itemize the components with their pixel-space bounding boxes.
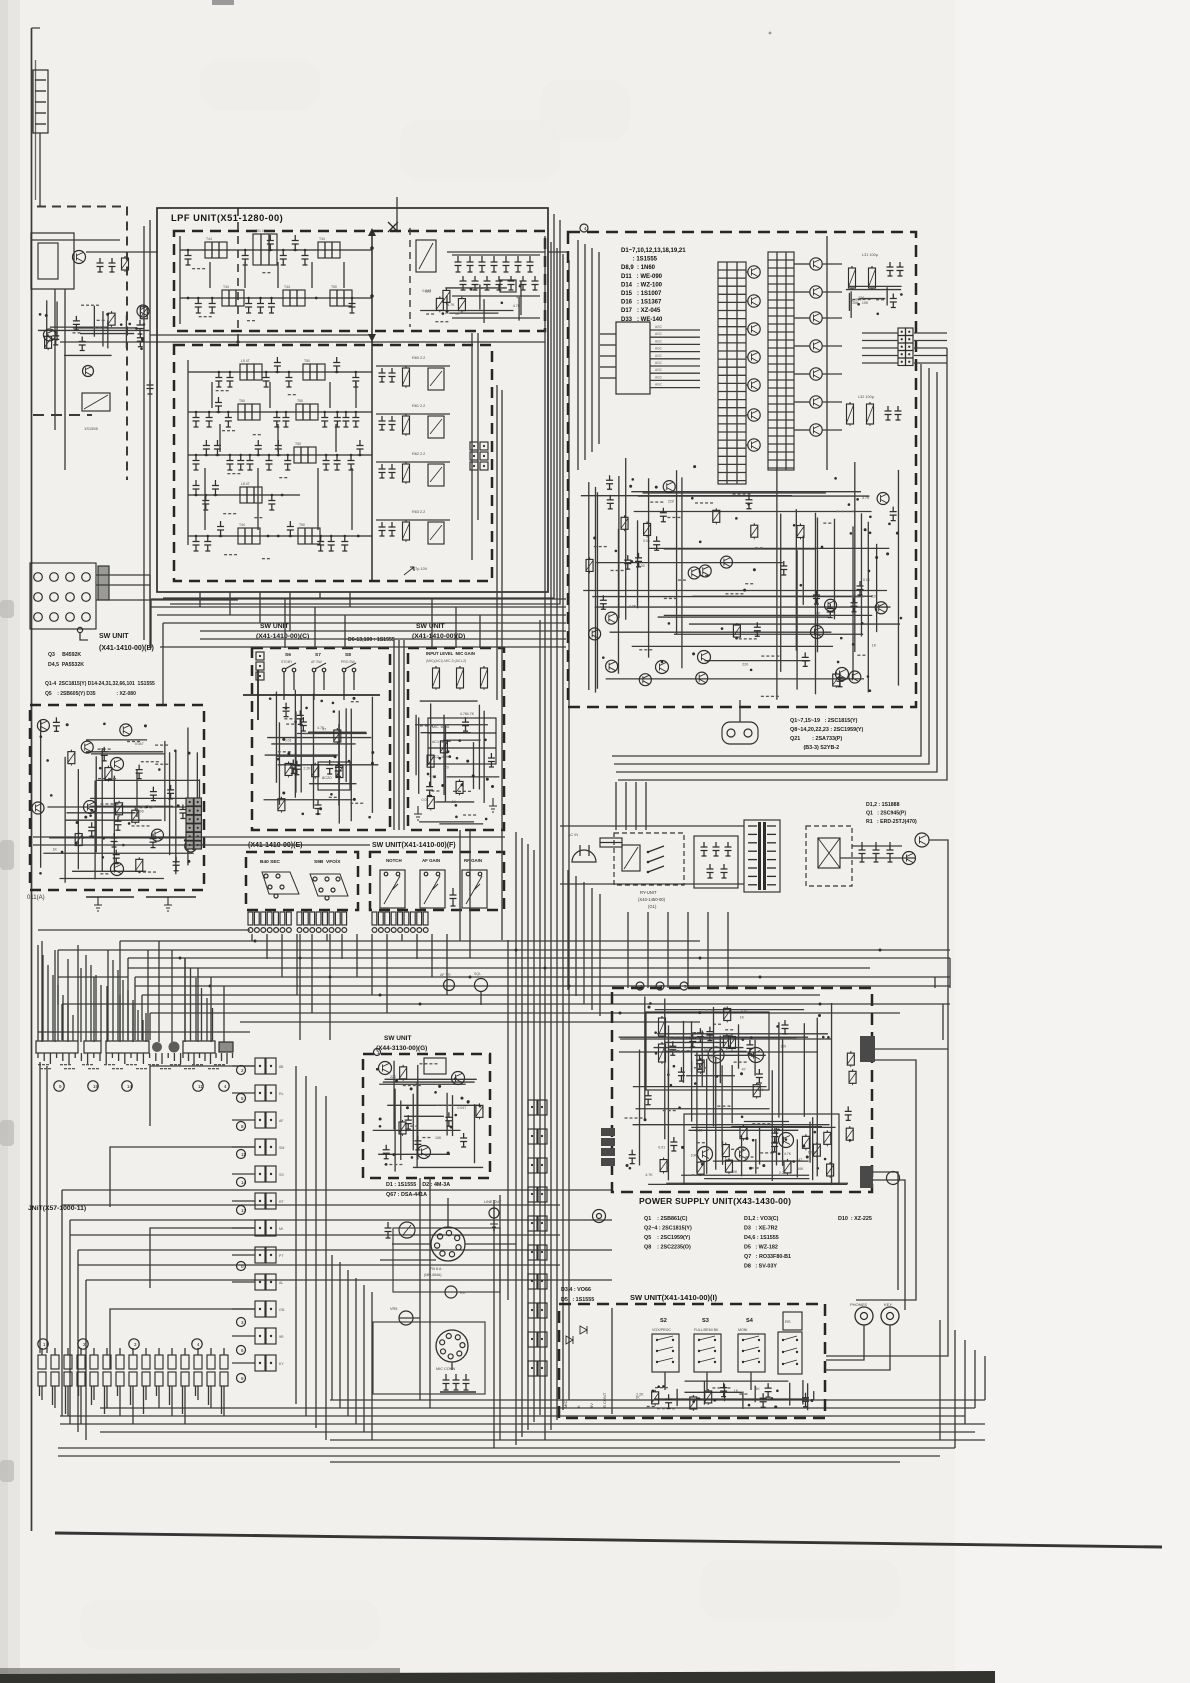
horizontal bus wire bbox=[150, 1012, 900, 1014]
pin 6 bbox=[50, 593, 59, 602]
junction bbox=[144, 724, 147, 727]
ground symbol D bbox=[414, 806, 422, 820]
capacitor bbox=[257, 298, 264, 313]
wire bbox=[232, 1362, 255, 1364]
svg-text:D11 : WE-090: D11 : WE-090 bbox=[621, 274, 663, 280]
resistor bbox=[402, 1065, 404, 1067]
circled pins row bbox=[54, 1081, 64, 1091]
annotation marks bbox=[224, 554, 227, 555]
svg-text:1K: 1K bbox=[635, 1395, 640, 1399]
connector pin pair 6 bbox=[255, 1193, 265, 1209]
resistor bbox=[850, 1051, 852, 1053]
lead wire 2 bbox=[52, 1386, 54, 1405]
tube socket V1 bbox=[431, 1227, 465, 1261]
svg-text:0.01: 0.01 bbox=[863, 578, 870, 582]
capacitor bbox=[88, 822, 95, 836]
junction bbox=[84, 816, 87, 819]
junction bbox=[867, 675, 870, 678]
junction bbox=[455, 816, 458, 819]
wire bbox=[840, 857, 916, 859]
connector row C bbox=[38, 1372, 46, 1386]
wire bbox=[794, 401, 810, 403]
wire bbox=[794, 291, 810, 293]
filter chain wire bbox=[180, 249, 372, 251]
wire bbox=[606, 678, 864, 680]
wire bbox=[38, 329, 149, 331]
wire bbox=[809, 1122, 811, 1163]
wire bbox=[404, 1115, 444, 1117]
junction bbox=[456, 757, 459, 760]
wire bbox=[681, 477, 683, 668]
wire bbox=[446, 295, 448, 313]
ground rail bbox=[452, 295, 540, 297]
annotation marks bbox=[350, 803, 353, 804]
wire bbox=[831, 1003, 833, 1185]
bus wire bbox=[62, 1189, 612, 1191]
connector pin pair 5 bbox=[255, 1166, 265, 1182]
junction bbox=[693, 465, 696, 468]
capacitor bbox=[226, 372, 233, 387]
capacitor bbox=[745, 495, 752, 509]
capacitor bbox=[328, 536, 335, 551]
svg-text:15: 15 bbox=[93, 1084, 99, 1089]
trimmer box bbox=[428, 368, 444, 390]
resistor bbox=[753, 523, 755, 525]
vertical bus wire bbox=[562, 254, 564, 1410]
junction bbox=[649, 1002, 652, 1005]
pin 1 bbox=[34, 573, 43, 582]
wire bbox=[649, 547, 890, 549]
junction bbox=[857, 303, 860, 306]
vertical bus wire bbox=[556, 248, 558, 1420]
inductor bbox=[294, 447, 316, 463]
capacitor bbox=[185, 250, 192, 265]
svg-text:AL: AL bbox=[279, 1281, 283, 1285]
wire bbox=[420, 309, 513, 311]
svg-text:AF VR: AF VR bbox=[440, 973, 451, 977]
svg-text:1K: 1K bbox=[445, 311, 450, 315]
svg-text:R60 2.2: R60 2.2 bbox=[412, 356, 425, 360]
junction bbox=[102, 856, 105, 859]
wire bbox=[862, 332, 898, 334]
annotation marks bbox=[733, 493, 736, 494]
block 2 bbox=[860, 1166, 873, 1188]
wire bbox=[822, 317, 842, 319]
inner vertical bus bbox=[826, 236, 828, 470]
RF unit dashed border bbox=[568, 232, 916, 707]
junction bbox=[122, 844, 125, 847]
junction bbox=[177, 804, 180, 807]
junction bbox=[267, 535, 270, 538]
capacitor bbox=[335, 762, 342, 776]
junction bbox=[896, 532, 899, 535]
resistor bbox=[589, 557, 591, 559]
wire bbox=[755, 1139, 757, 1174]
capacitor bbox=[242, 250, 249, 265]
junction bbox=[800, 584, 803, 587]
transistor bbox=[825, 599, 837, 611]
annotation marks bbox=[761, 655, 764, 656]
junction bbox=[849, 1139, 852, 1142]
inductor bbox=[296, 404, 318, 420]
wire bbox=[439, 823, 483, 825]
capacitor bbox=[890, 294, 897, 308]
resistor bbox=[336, 728, 338, 730]
junction bbox=[647, 1006, 650, 1009]
left bus extension bbox=[38, 929, 250, 931]
bus wire bbox=[151, 606, 566, 608]
vertical bus wire bbox=[544, 236, 546, 1440]
svg-text:1K: 1K bbox=[755, 1387, 760, 1391]
wire bbox=[447, 776, 500, 778]
transistor Q62 bbox=[418, 1146, 431, 1159]
wire bbox=[802, 536, 804, 605]
connector pin pair 4 bbox=[255, 1139, 265, 1155]
svg-text:Q67 : DSA-441A: Q67 : DSA-441A bbox=[386, 1192, 427, 1198]
svg-text:S6: S6 bbox=[285, 652, 291, 658]
wire bbox=[518, 297, 520, 321]
capacitor bbox=[225, 412, 232, 427]
svg-text:AGC: AGC bbox=[655, 332, 663, 336]
junction bbox=[81, 836, 84, 839]
svg-text:T50: T50 bbox=[239, 399, 245, 403]
annotation marks bbox=[663, 1110, 666, 1111]
capacitor C73 bbox=[885, 406, 892, 420]
annotation marks bbox=[673, 1051, 676, 1052]
capacitor C30 bbox=[97, 258, 104, 272]
ladder block 2 bbox=[768, 252, 794, 470]
annotation marks bbox=[761, 696, 764, 697]
wire bbox=[746, 414, 748, 416]
annotation marks bbox=[222, 430, 225, 431]
junction bbox=[301, 813, 304, 816]
wire bbox=[373, 1129, 461, 1131]
wire bbox=[850, 291, 852, 318]
connector pin pair 8 bbox=[255, 1247, 265, 1263]
junction bbox=[470, 288, 473, 291]
connector row B bbox=[38, 1355, 46, 1369]
left bus lower bbox=[187, 360, 189, 545]
junction bbox=[694, 1082, 697, 1085]
wire bbox=[437, 801, 474, 803]
capacitor bbox=[349, 298, 356, 313]
capacitor bbox=[670, 1137, 677, 1151]
wire bbox=[72, 870, 146, 872]
junction bbox=[46, 759, 49, 762]
svg-text:AGC: AGC bbox=[655, 354, 663, 358]
junction bbox=[106, 313, 109, 316]
resistor bbox=[111, 311, 113, 313]
svg-text:R61 2.2: R61 2.2 bbox=[412, 404, 425, 408]
wire bbox=[782, 1039, 784, 1166]
riser under E/F bbox=[299, 934, 301, 1040]
resistor bbox=[731, 1034, 733, 1036]
right page lighter area bbox=[955, 0, 1190, 1683]
capacitor bbox=[214, 440, 221, 455]
lead wire bbox=[41, 1386, 43, 1400]
lead wire bbox=[171, 1348, 173, 1355]
wire bbox=[655, 1009, 804, 1011]
wire bbox=[685, 1380, 789, 1382]
junction bbox=[135, 327, 138, 330]
resistor VR1 bbox=[435, 666, 437, 668]
svg-text:2.2K: 2.2K bbox=[303, 766, 311, 770]
wire bbox=[385, 1078, 477, 1080]
wire bbox=[654, 1398, 808, 1400]
filter chain wire bbox=[188, 535, 372, 537]
junction bbox=[353, 798, 356, 801]
svg-text:RY-UNIT: RY-UNIT bbox=[640, 890, 657, 895]
pin 4 bbox=[82, 573, 91, 582]
svg-text:D15 : 1S1007: D15 : 1S1007 bbox=[621, 291, 662, 297]
junction bbox=[661, 661, 664, 664]
capacitor bbox=[836, 673, 843, 687]
junction bbox=[371, 751, 374, 754]
wire bbox=[778, 1022, 780, 1117]
wire bbox=[232, 1281, 255, 1283]
junction bbox=[187, 297, 190, 300]
transistor Q3 bbox=[749, 1048, 764, 1063]
svg-text:(MR-8MA): (MR-8MA) bbox=[424, 1273, 442, 1277]
svg-text:1K: 1K bbox=[734, 1389, 739, 1393]
IC pin wire 2 bbox=[650, 336, 700, 338]
annotation marks bbox=[127, 741, 130, 742]
annotation marks bbox=[712, 1387, 715, 1388]
wire bbox=[637, 520, 639, 608]
row A annotation marks bbox=[40, 1068, 43, 1069]
wire bbox=[353, 672, 355, 690]
wire bbox=[312, 694, 314, 809]
filter chain wire bbox=[180, 297, 372, 299]
pot on wire 1 bbox=[444, 980, 455, 991]
capacitor bbox=[515, 256, 522, 272]
junction bbox=[458, 739, 461, 742]
svg-text:D4,6 : 1S1555: D4,6 : 1S1555 bbox=[744, 1235, 779, 1241]
wire bbox=[657, 1033, 828, 1035]
inductor bbox=[205, 242, 227, 258]
junction bbox=[741, 1115, 744, 1118]
capacitor bbox=[173, 857, 180, 871]
junction bbox=[654, 1031, 657, 1034]
wire bbox=[670, 1037, 797, 1039]
svg-text:9R: 9R bbox=[279, 1335, 284, 1339]
wire bbox=[95, 779, 199, 781]
riser wire bbox=[344, 615, 346, 648]
vertical bus wire bbox=[550, 242, 552, 1430]
resistor bbox=[459, 779, 461, 781]
row A lead wires bbox=[37, 945, 39, 1041]
supply horizontals bbox=[560, 825, 744, 827]
inner block bbox=[38, 243, 58, 279]
wire bbox=[125, 315, 127, 348]
capacitor bbox=[720, 1383, 727, 1397]
capacitor bbox=[73, 316, 80, 330]
wire bbox=[596, 492, 598, 689]
PSU lower link wires bbox=[872, 1180, 905, 1310]
connector row under E group 2 bbox=[297, 912, 302, 925]
svg-text:: 1S1555: : 1S1555 bbox=[621, 257, 658, 263]
annotation marks bbox=[138, 871, 141, 872]
capacitor bbox=[53, 717, 60, 731]
junction bbox=[370, 246, 374, 250]
capacitor bbox=[179, 805, 186, 819]
wire bbox=[826, 1312, 948, 1356]
transistor Q63 bbox=[452, 1072, 465, 1085]
LPF to bus drops bbox=[199, 592, 201, 607]
junction bbox=[735, 637, 738, 640]
wire bbox=[110, 1147, 255, 1207]
bus wire bbox=[62, 1204, 560, 1206]
svg-text:011(A): 011(A) bbox=[27, 895, 45, 901]
inner box 2 bbox=[684, 1114, 839, 1184]
annotation marks bbox=[725, 593, 728, 594]
svg-text:0.01: 0.01 bbox=[285, 738, 292, 742]
annotation marks bbox=[216, 390, 219, 391]
wire bbox=[746, 444, 748, 446]
connector row under E group 1 bbox=[248, 912, 253, 925]
wire bbox=[376, 365, 450, 367]
wire bbox=[383, 1081, 475, 1083]
wire bbox=[449, 312, 498, 314]
LPF outer second outline right bbox=[163, 214, 554, 598]
junction triangle bbox=[368, 334, 376, 342]
capacitor bbox=[301, 250, 308, 265]
transistor Q16 bbox=[656, 661, 669, 674]
resistor bbox=[138, 857, 140, 859]
junction bbox=[668, 622, 671, 625]
transistor Q31 bbox=[83, 366, 94, 377]
svg-text:Q5 : 2SB605(Y) D35: Q5 : 2SB605(Y) D35 : XZ-080 bbox=[45, 691, 136, 697]
junction bbox=[850, 532, 853, 535]
svg-text:R62 2.2: R62 2.2 bbox=[412, 452, 425, 456]
RIT pot bbox=[445, 1286, 457, 1298]
resistor R73 bbox=[849, 402, 851, 404]
wire bbox=[309, 783, 356, 785]
transistor Q5 bbox=[84, 801, 97, 814]
wire bbox=[581, 495, 792, 497]
wire bbox=[588, 482, 590, 690]
resistor bbox=[799, 524, 801, 526]
junction bbox=[657, 1385, 660, 1388]
junction bbox=[861, 622, 864, 625]
wire bbox=[620, 1038, 831, 1040]
wire bbox=[692, 595, 872, 597]
scan blotches bbox=[200, 60, 320, 110]
wire bbox=[91, 753, 165, 755]
resistor bbox=[338, 764, 340, 766]
wire bbox=[795, 509, 797, 651]
svg-text:0.01: 0.01 bbox=[643, 539, 650, 543]
bottom bus wire bbox=[100, 1407, 975, 1409]
junction bbox=[281, 494, 284, 497]
capacitor bbox=[445, 1112, 452, 1126]
svg-text:AGC: AGC bbox=[655, 325, 663, 329]
inductor bbox=[303, 364, 325, 380]
long crossing wire bbox=[33, 844, 370, 846]
annotation marks bbox=[594, 546, 597, 547]
svg-text:STDBY: STDBY bbox=[281, 660, 293, 664]
svg-text:S7: S7 bbox=[315, 652, 321, 658]
wire bbox=[739, 700, 741, 722]
wire bbox=[876, 544, 878, 632]
transistor Q5 bbox=[748, 379, 760, 391]
wire bbox=[338, 710, 340, 823]
transistor bbox=[639, 674, 651, 686]
junction bbox=[442, 312, 445, 315]
junction bbox=[269, 697, 272, 700]
annotation marks bbox=[384, 1164, 387, 1165]
wire bbox=[681, 1174, 809, 1176]
lead wire bbox=[106, 1386, 108, 1408]
wire bbox=[592, 596, 860, 598]
capacitor C72 bbox=[897, 262, 904, 276]
trimmer box bbox=[428, 464, 444, 486]
junction bbox=[692, 652, 695, 655]
resistor bbox=[728, 1158, 730, 1160]
junction bbox=[352, 697, 355, 700]
junction bbox=[305, 707, 308, 710]
junction bbox=[856, 498, 859, 501]
vertical bus wire bbox=[527, 844, 529, 1430]
vertical bus wire bbox=[507, 940, 509, 1300]
round pad bbox=[219, 1042, 233, 1052]
bottom bus wire bbox=[100, 1431, 975, 1433]
capacitor bbox=[268, 495, 275, 510]
capacitor bbox=[405, 1115, 412, 1129]
lead wire 2 bbox=[78, 1386, 80, 1396]
junction bbox=[750, 1036, 753, 1039]
wire bbox=[47, 806, 199, 808]
junction bbox=[701, 1163, 704, 1166]
wire bbox=[65, 819, 162, 821]
connector pin pair 1 bbox=[255, 1058, 265, 1074]
lead wire bbox=[210, 1348, 212, 1355]
transistor bbox=[688, 567, 700, 579]
cap block box bbox=[694, 836, 738, 888]
junction bbox=[441, 784, 444, 787]
junction bbox=[392, 1153, 395, 1156]
wire bbox=[638, 495, 869, 497]
svg-text:Q1~7,15~19 : 2SC1815(Y): Q1~7,15~19 : 2SC1815(Y) bbox=[790, 718, 858, 724]
junction bbox=[467, 1101, 470, 1104]
junction bbox=[875, 556, 878, 559]
capacitor bbox=[653, 536, 660, 550]
junction bbox=[348, 760, 351, 763]
svg-text:LPF UNIT(X51-1280-00): LPF UNIT(X51-1280-00) bbox=[171, 213, 283, 223]
svg-text:D3 : XE-7R2: D3 : XE-7R2 bbox=[744, 1226, 778, 1232]
junction bbox=[315, 297, 318, 300]
wire bbox=[315, 1086, 317, 1428]
junction bbox=[740, 1072, 743, 1075]
wire bbox=[110, 1309, 255, 1369]
transistor Q61 bbox=[379, 1062, 392, 1075]
junction bbox=[454, 1114, 457, 1117]
svg-text:Q3 B4592K: Q3 B4592K bbox=[48, 652, 81, 658]
wire bbox=[713, 1007, 715, 1126]
junction bbox=[868, 570, 871, 573]
junction bbox=[827, 1036, 830, 1039]
IC pin wire 5 bbox=[650, 358, 700, 360]
svg-text:D1,2 : VO3(C): D1,2 : VO3(C) bbox=[744, 1216, 779, 1222]
pin bbox=[374, 1049, 381, 1056]
junction bbox=[869, 689, 872, 692]
svg-text:100: 100 bbox=[707, 1056, 713, 1060]
wire bbox=[305, 1076, 307, 1416]
capacitor bbox=[426, 782, 433, 796]
wire bbox=[862, 355, 898, 357]
capacitor bbox=[137, 333, 144, 347]
transistor Q7 bbox=[779, 1133, 794, 1148]
